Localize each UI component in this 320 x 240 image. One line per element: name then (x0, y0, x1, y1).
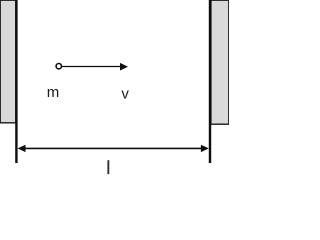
dimension line shaft (24, 147, 203, 149)
velocity arrowhead (120, 63, 128, 71)
mass m (small circle) (56, 63, 61, 68)
svg-text:m: m (47, 84, 60, 101)
left wall (shaded plate) (0, 0, 16, 123)
dimension left arrowhead (18, 145, 26, 152)
velocity arrow shaft (62, 66, 120, 68)
dimension right arrowhead (201, 145, 209, 152)
svg-text:v: v (121, 85, 129, 102)
left wall inner edge / extension line (15, 0, 17, 163)
right wall inner edge / extension line (209, 0, 211, 163)
right wall (shaded plate) (211, 0, 229, 124)
label l (107, 160, 109, 174)
